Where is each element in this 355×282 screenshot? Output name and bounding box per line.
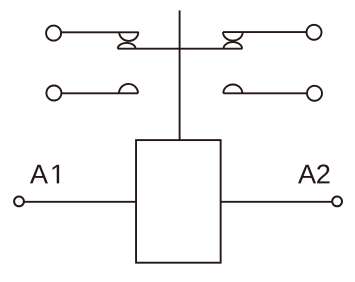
wire: NC bridge bar across actuator	[118, 48, 242, 50]
NC contact right: moving contact dome	[224, 42, 243, 49]
NC contact left: moving contact dome	[118, 43, 136, 49]
wire: right NC fixed contact to terminal	[223, 31, 307, 33]
terminal circle A1	[14, 197, 24, 207]
coil K1 (electromagnet body)	[136, 140, 221, 263]
NC contact left: fixed contact arc	[119, 32, 138, 41]
NO contact right: contact dome	[223, 85, 242, 94]
terminal circle, NO contact right	[307, 86, 322, 101]
label A1	[30, 165, 59, 184]
terminal circle, NC contact left	[46, 26, 61, 41]
NO contact left: contact dome	[119, 84, 138, 93]
label A2	[298, 164, 329, 183]
terminal circle, NO contact left	[46, 86, 61, 101]
wire: actuator link from contacts to coil	[179, 10, 181, 140]
terminal circle A2	[332, 197, 342, 207]
wire: right NO contact to terminal	[223, 92, 307, 94]
NC contact right: fixed contact arc	[223, 32, 243, 41]
wire: coil to A2 terminal	[221, 201, 333, 203]
wire: left NC terminal to fixed contact	[61, 31, 139, 33]
wire: A1 terminal to coil	[24, 201, 136, 203]
wire: left NO terminal to contact	[61, 92, 138, 94]
terminal circle, NC contact right	[307, 25, 322, 40]
